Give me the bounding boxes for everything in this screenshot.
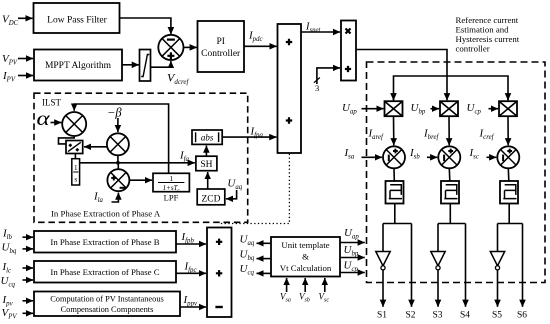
svg-text:Ilb: Ilb	[2, 228, 13, 242]
svg-text:Isc: Isc	[469, 147, 479, 161]
svg-text:PI: PI	[216, 37, 224, 47]
svg-text:&: &	[302, 252, 309, 262]
wire IPV to MPPT	[18, 75, 33, 77]
block Unit template and Vt Calculation	[271, 237, 340, 277]
wire VDC to LPF	[18, 17, 33, 19]
node Ucp label	[467, 102, 482, 116]
wire mult1 to divider	[59, 136, 75, 144]
text ILST	[42, 98, 62, 108]
svg-text:In Phase Extraction of Phase B: In Phase Extraction of Phase B	[50, 237, 159, 247]
SH block	[196, 156, 217, 171]
svg-text:Vsa: Vsa	[280, 292, 291, 304]
node Ubp out label	[344, 244, 359, 258]
svg-text:VPV: VPV	[2, 307, 18, 321]
svg-text:Ipv: Ipv	[2, 294, 14, 308]
wire Isc to sum-c	[487, 156, 497, 158]
wire Ipdc PI to summer	[244, 45, 277, 47]
wire Ubp to M-b	[431, 108, 440, 110]
block In Phase Extraction of Phase C	[34, 261, 176, 283]
dashed hysteresis controller box	[367, 62, 546, 283]
multiplier M-c	[499, 101, 517, 116]
block In Phase Extraction of Phase B	[34, 231, 176, 253]
wire Ifpc to summer2	[176, 272, 206, 274]
svg-text:Isnet: Isnet	[305, 22, 322, 35]
svg-text:Unit template: Unit template	[281, 240, 329, 250]
node Uap label	[342, 102, 357, 116]
wire M-a to sum-a	[393, 116, 395, 145]
wire ZCD to SH	[207, 172, 209, 189]
multiplier circle mult1	[62, 112, 86, 136]
wire Ucq out	[257, 272, 272, 274]
svg-text:Compensation Components: Compensation Components	[61, 305, 154, 314]
svg-text:Ila: Ila	[93, 191, 104, 205]
wire mult box to phase multipliers	[356, 50, 508, 101]
svg-text:Ifa: Ifa	[179, 150, 190, 164]
wire junction to sum3	[117, 163, 119, 170]
wire MPPT to rate limiter	[122, 64, 139, 66]
node Ila label	[93, 191, 104, 205]
wire VPV to MPPT	[18, 58, 33, 60]
wire H-c split	[498, 204, 523, 252]
wire H-a split	[383, 204, 412, 252]
wire sum-b to hysteresis H-b	[448, 168, 451, 181]
svg-text:Ubq: Ubq	[2, 242, 17, 256]
node Ubp label	[411, 102, 426, 116]
svg-text:1: 1	[169, 174, 173, 183]
wire S1	[382, 270, 384, 307]
text LPF label	[164, 193, 179, 203]
svg-text:Isa: Isa	[344, 147, 355, 161]
inverter gate G-c	[490, 252, 504, 270]
wire feedback LPF1 to mult1	[74, 104, 168, 173]
summing junction dc-link	[158, 35, 183, 60]
wire Vsa input	[286, 278, 288, 292]
wire Vsb input	[304, 278, 306, 292]
svg-text:Ilc: Ilc	[2, 261, 12, 275]
svg-text:Ifpc: Ifpc	[184, 261, 197, 275]
svg-text:Ifpb: Ifpb	[181, 231, 195, 245]
wire S4	[465, 224, 467, 307]
svg-text:Ucp: Ucp	[467, 102, 482, 116]
svg-text:VDC: VDC	[2, 14, 19, 28]
rate limiter block	[140, 50, 151, 82]
wire S6	[522, 224, 524, 307]
wire Uap to M-a	[362, 108, 384, 110]
node Ipdc label	[248, 30, 263, 44]
summer block S-2	[207, 228, 232, 318]
node Ibref label	[423, 128, 439, 142]
node alpha label	[37, 108, 51, 130]
block PI Controller	[198, 21, 245, 72]
wire summing junction to PI	[184, 46, 197, 48]
svg-text:Vdcref: Vdcref	[167, 71, 190, 87]
svg-text:Iaref: Iaref	[368, 128, 384, 142]
wire 3-phase stub into mult box	[314, 68, 340, 84]
wire Ubq to phase B block	[23, 248, 34, 250]
wire Ucq to phase C block	[23, 279, 34, 281]
multiplier circle mult2	[107, 133, 129, 155]
node Ucq out label	[240, 263, 255, 277]
svg-text:Vt Calculation: Vt Calculation	[280, 263, 332, 273]
summer block S-A	[278, 24, 302, 153]
hysteresis block H-a	[386, 181, 404, 204]
divider block	[66, 141, 83, 154]
wire Uaq out	[257, 242, 272, 244]
LPF1 block 1/(1+sTc)	[153, 173, 189, 193]
node Vsa label	[280, 292, 291, 304]
node Uaq label at ZCD	[227, 178, 242, 192]
inverter gate G-a	[376, 252, 390, 270]
node Vsb label	[299, 292, 310, 304]
node Iaref label	[368, 128, 384, 142]
node Vdcref label	[167, 71, 190, 87]
svg-text:α: α	[37, 108, 51, 130]
svg-text:LPF: LPF	[164, 193, 179, 203]
wire Isnet summer to mult box	[301, 31, 340, 33]
svg-text:Icref: Icref	[479, 128, 495, 142]
node Ipv label	[2, 294, 14, 308]
node Ilc label	[2, 261, 12, 275]
node VPV label	[2, 53, 18, 67]
node IPV label	[2, 70, 16, 84]
summing junction sum-c	[497, 146, 519, 168]
node Isc label	[469, 147, 479, 161]
wire Ilb to phase B block	[23, 236, 34, 238]
wire Vsc input	[324, 278, 326, 292]
svg-text:S2: S2	[406, 311, 416, 321]
node 3 label	[315, 83, 319, 93]
block Low Pass Filter	[34, 3, 120, 33]
node Ilb label	[2, 228, 13, 242]
svg-text:Ipdc: Ipdc	[248, 30, 263, 44]
wire S3	[437, 270, 439, 307]
wire Ucp to M-c	[489, 108, 499, 110]
node Vpv label	[2, 307, 18, 321]
svg-text:Ibref: Ibref	[423, 128, 439, 142]
wire Ubp out to dashed box	[340, 257, 365, 259]
wire Ila to sum3	[112, 193, 119, 202]
svg-text:SH: SH	[200, 160, 212, 170]
node S6 label	[517, 311, 527, 321]
node S3 label	[433, 311, 443, 321]
node Isnet label	[305, 22, 322, 35]
svg-text:Ifpa: Ifpa	[250, 126, 264, 140]
node Ubq label	[2, 242, 17, 256]
wire SH to abs	[205, 146, 207, 157]
svg-text:In Phase Extraction of Phase A: In Phase Extraction of Phase A	[51, 209, 161, 219]
svg-text:Hysteresis current: Hysteresis current	[456, 34, 520, 44]
text Reference current Estimation and Hysteresis current controller	[456, 15, 520, 54]
svg-text:Computation of PV Instantaneou: Computation of PV Instantaneous	[50, 295, 164, 304]
inverter gate G-b	[431, 252, 445, 270]
node VDC label	[2, 14, 19, 28]
wire S2	[411, 224, 413, 307]
wire Ilc to phase C block	[23, 267, 34, 269]
wire Ifpa abs to summer	[222, 136, 276, 138]
node S4 label	[460, 311, 470, 321]
text In Phase Extraction of Phase A	[51, 209, 161, 219]
multiplier M-a	[385, 101, 403, 116]
wire Isb to sum-b	[427, 156, 437, 158]
wire Vpv to PV block	[23, 312, 34, 314]
node Isa label	[344, 147, 355, 161]
wire Ippv to summer2	[180, 306, 206, 308]
svg-text:Ucq: Ucq	[1, 275, 16, 289]
wire M-b to sum-b	[448, 116, 450, 145]
svg-text:Uap: Uap	[342, 102, 357, 116]
svg-text:Ubp: Ubp	[344, 244, 359, 258]
wire divider to integrator	[74, 154, 76, 159]
node Ifpb label	[181, 231, 195, 245]
abs block	[192, 130, 222, 144]
svg-text:Vsb: Vsb	[299, 292, 310, 304]
wire beta to mult2	[117, 118, 119, 132]
svg-text:ILST: ILST	[42, 98, 62, 108]
wire mult2 to divider	[84, 146, 107, 148]
block MPPT Algorithm	[34, 50, 122, 81]
svg-text:S1: S1	[377, 311, 387, 321]
node Ucp out label	[344, 260, 359, 274]
svg-text:Ucq: Ucq	[240, 263, 255, 277]
svg-text:Vsc: Vsc	[319, 292, 330, 304]
wire Ipv to PV block	[23, 300, 34, 302]
node minus-beta label	[107, 106, 122, 120]
svg-text:−β: −β	[107, 106, 122, 120]
svg-text:Controller: Controller	[201, 49, 241, 59]
summing junction sum3	[107, 169, 129, 191]
wire LPF to summing junction	[120, 18, 171, 34]
node Ubq out label	[240, 249, 255, 263]
dashed ILST box	[34, 93, 248, 222]
svg-text:Uaq: Uaq	[240, 234, 255, 248]
svg-text:Uaq: Uaq	[227, 178, 242, 192]
wire M-c to sum-c	[507, 116, 509, 145]
svg-text:Ubp: Ubp	[411, 102, 426, 116]
node Ippv label	[183, 294, 198, 308]
svg-text:S5: S5	[492, 311, 502, 321]
wire Uaq to ZCD	[226, 190, 237, 199]
svg-text:Isb: Isb	[409, 147, 420, 161]
wire sum3 to LPF1	[129, 179, 152, 181]
node Ifpa label	[250, 126, 264, 140]
node S2 label	[406, 311, 416, 321]
svg-text:VPV: VPV	[2, 53, 18, 67]
svg-text:MPPT Algorithm: MPPT Algorithm	[45, 61, 112, 71]
svg-text:abs: abs	[201, 133, 214, 143]
ZCD block	[197, 189, 225, 205]
wire S5	[497, 270, 499, 307]
svg-text:s: s	[74, 175, 77, 184]
svg-text:Reference current: Reference current	[456, 15, 519, 25]
node Uaq out label	[240, 234, 255, 248]
svg-text:S3: S3	[433, 311, 443, 321]
multiplier M-b	[440, 101, 458, 116]
node Ucq label	[1, 275, 16, 289]
wire alpha to mult1	[51, 122, 62, 124]
node Ifa label	[179, 150, 190, 164]
svg-text:S6: S6	[517, 311, 527, 321]
integrator block 1/s	[72, 159, 80, 185]
svg-text:Low Pass Filter: Low Pass Filter	[47, 15, 107, 25]
node Icref label	[479, 128, 495, 142]
svg-text:3: 3	[315, 83, 319, 93]
svg-text:ZCD: ZCD	[202, 194, 221, 204]
svg-text:In Phase Extraction of Phase C: In Phase Extraction of Phase C	[50, 267, 159, 277]
svg-text:S4: S4	[460, 311, 470, 321]
summing junction sum-a	[383, 146, 405, 168]
wire H-b split	[438, 204, 466, 252]
wire Ubq out	[257, 258, 272, 260]
node Vsc label	[319, 292, 330, 304]
svg-text:Ucp: Ucp	[344, 260, 359, 274]
hysteresis block H-b	[441, 181, 459, 204]
svg-text:Ippv: Ippv	[183, 294, 198, 308]
wire Vdcref to summing junction	[151, 61, 171, 67]
wire sum-a to hysteresis H-a	[393, 168, 395, 181]
svg-text:1: 1	[74, 163, 78, 172]
block Computation of PV Instantaneous Compensation Components	[34, 292, 180, 317]
wire Uap out to dashed box	[340, 242, 365, 244]
wire sum-c to hysteresis H-c	[507, 168, 510, 181]
node Ifpc label	[184, 261, 197, 275]
svg-text:controller: controller	[456, 44, 490, 54]
hysteresis block H-c	[500, 181, 518, 204]
summing junction sum-b	[438, 146, 460, 168]
wire Ucp out to dashed box	[340, 272, 365, 274]
wire mult2 to junction	[117, 155, 119, 163]
node Isb label	[409, 147, 420, 161]
svg-text:IPV: IPV	[2, 70, 16, 84]
node Uap out label	[344, 227, 359, 241]
multiplier-summer narrow box	[341, 21, 356, 81]
node S5 label	[492, 311, 502, 321]
svg-text:Uap: Uap	[344, 227, 359, 241]
svg-text:Ubq: Ubq	[240, 249, 255, 263]
wire Isa to sum-a	[362, 156, 383, 158]
wire Ifa line to SH	[80, 161, 195, 165]
wire Ifpb to summer2	[176, 243, 206, 245]
node S1 label	[377, 311, 387, 321]
dotted wire summer to summer2	[222, 154, 290, 227]
svg-text:Estimation and: Estimation and	[456, 24, 510, 34]
